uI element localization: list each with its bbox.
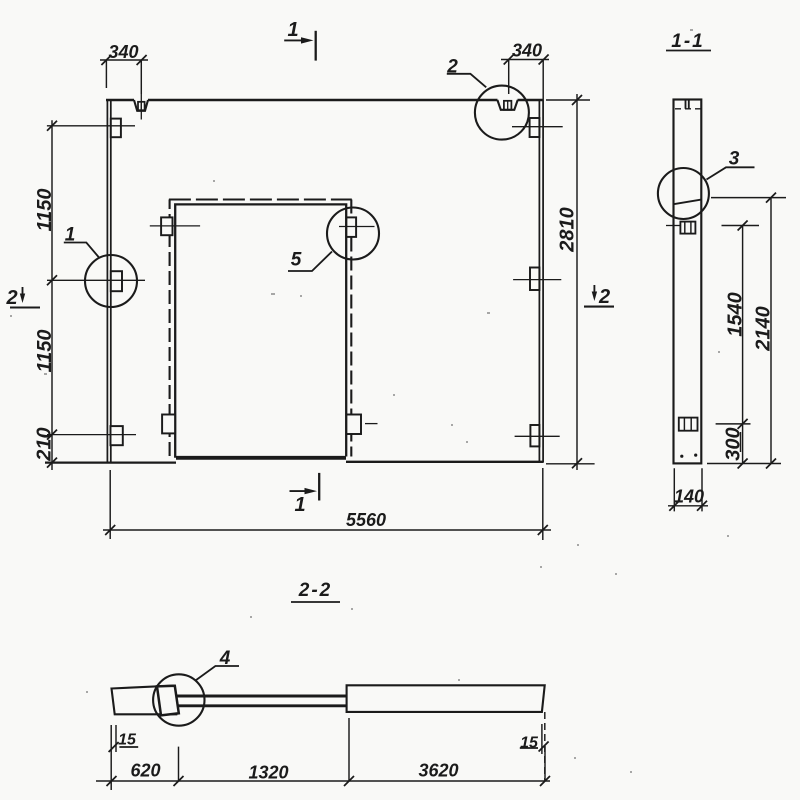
svg-text:15: 15 [520, 735, 539, 752]
svg-text:1: 1 [65, 225, 76, 246]
1-1 bottom dots [680, 455, 683, 458]
svg-text:2-2: 2-2 [298, 580, 332, 601]
P4 centerline [512, 126, 563, 128]
underline 15 left [119, 746, 138, 748]
svg-text:2: 2 [598, 286, 610, 308]
panel left edge (double line) [107, 100, 110, 463]
top-left loop plate [138, 102, 145, 110]
detail circle 5 [327, 208, 379, 260]
P8 centerline [339, 226, 375, 228]
chain extension lines [179, 718, 546, 781]
P3 centerline [47, 434, 136, 436]
svg-text:1-1: 1-1 [671, 31, 704, 52]
svg-text:2140: 2140 [753, 306, 775, 352]
section mark 2 right [593, 285, 595, 294]
plate P10 door bottom-right [346, 415, 361, 435]
svg-text:2: 2 [446, 57, 458, 78]
left dimension chain line [51, 120, 53, 470]
P7 centerline [150, 225, 200, 227]
dim 340 left: line and extensions [100, 60, 148, 94]
2810 top extension [546, 99, 590, 101]
door threshold thick line [176, 456, 346, 460]
chain ticks [107, 776, 551, 786]
1-1 column outline [674, 100, 702, 464]
dim 340 left ticks [101, 55, 146, 65]
1-1 lower embed plate [679, 418, 698, 431]
section mark 1 top [315, 31, 317, 61]
detail 4 leader [196, 666, 239, 680]
svg-text:5: 5 [291, 250, 302, 271]
svg-text:1150: 1150 [34, 188, 56, 231]
section mark 1 bottom [318, 473, 320, 501]
1-1 joint line in detail 3 [674, 200, 702, 205]
P2 centerline [47, 279, 145, 281]
ticks on 1540/300/2140 lines [738, 193, 776, 469]
detail 2 leader [447, 74, 486, 88]
svg-text:140: 140 [674, 487, 704, 507]
svg-text:1: 1 [294, 494, 305, 516]
left chain ticks [47, 121, 57, 468]
dim 340 right: line and extensions [501, 60, 549, 101]
plate P5 middle of right edge [530, 268, 539, 291]
detail 4 tilted plate [157, 686, 179, 716]
svg-text:2810: 2810 [557, 207, 579, 253]
P10 centerline stub [365, 423, 378, 425]
140 ticks [669, 501, 707, 511]
svg-text:210: 210 [34, 427, 56, 461]
svg-text:620: 620 [130, 761, 160, 781]
P6 centerline [515, 435, 560, 437]
top-right lifting loop recess [497, 100, 517, 110]
plate P7 door top-left [161, 217, 172, 235]
dim 15 left [111, 725, 116, 790]
svg-text:1540: 1540 [725, 292, 747, 337]
section mark 2 left [22, 287, 24, 296]
underline title 2-2 [291, 601, 340, 603]
dim line 2140 [770, 198, 772, 464]
top-right loop plate [504, 101, 512, 110]
plate P1 top of left edge [111, 119, 121, 138]
detail circle 2 [475, 86, 529, 140]
svg-text:3620: 3620 [418, 761, 458, 781]
svg-text:3: 3 [729, 149, 740, 170]
svg-text:1320: 1320 [248, 763, 288, 783]
plate P9 door bottom-left [162, 415, 175, 434]
svg-text:1150: 1150 [34, 329, 56, 372]
plate P6 bottom of right edge [530, 425, 539, 446]
top-left loop centerline [140, 94, 142, 120]
detail circle 3 [658, 168, 709, 219]
svg-text:2: 2 [5, 287, 17, 309]
plate P3 bottom of left edge [111, 426, 123, 445]
1-1 upper embed plate [680, 222, 695, 234]
svg-text:340: 340 [108, 42, 138, 62]
svg-text:1: 1 [287, 19, 298, 41]
bottom dimension chain 620/1320/3620 [96, 780, 550, 782]
dim line 1540/300 [742, 226, 744, 464]
1-1 upper plate centerline stub [666, 225, 680, 227]
1-1 right extension lines [707, 198, 786, 464]
panel bottom edge right segment [346, 461, 544, 463]
plate P4 top of right edge [530, 118, 540, 137]
underline title 1-1 [666, 50, 711, 52]
2-2 connecting strip (top and bottom lines) [176, 696, 347, 706]
2-2 right block [347, 685, 545, 712]
detail 1 leader [64, 243, 99, 258]
dim 2810 line right [546, 94, 595, 470]
1-1 top loop marks [686, 100, 689, 109]
5560 ticks [105, 525, 548, 535]
detail 5 leader [288, 252, 332, 272]
detail 3 leader [707, 167, 755, 179]
dim 5560 bottom [103, 468, 551, 540]
plate P2 middle of left edge (detail 1) [111, 271, 122, 291]
2810 ticks [572, 95, 582, 468]
plate P8 door top-right (detail 5) [346, 217, 356, 237]
svg-text:5560: 5560 [346, 510, 386, 530]
panel bottom edge left segment [45, 461, 176, 463]
door opening dashed outline [169, 200, 171, 457]
dim 340 right ticks [504, 55, 549, 65]
2-2 left block [112, 686, 177, 715]
dim 15 right [541, 724, 543, 754]
dim 140 below column [668, 468, 708, 511]
top-left lifting loop recess [134, 100, 148, 111]
P1 centerline [47, 125, 135, 127]
underline 300 [740, 432, 742, 452]
detail circle 1 [85, 255, 137, 307]
detail circle 4 [153, 674, 204, 725]
door opening solid outline [175, 204, 346, 457]
svg-text:15: 15 [118, 732, 137, 749]
svg-text:4: 4 [219, 648, 231, 669]
svg-text:340: 340 [512, 41, 542, 61]
panel right edge (double line) [539, 100, 543, 462]
P5 centerline [513, 279, 561, 281]
panel top edge [106, 99, 543, 102]
